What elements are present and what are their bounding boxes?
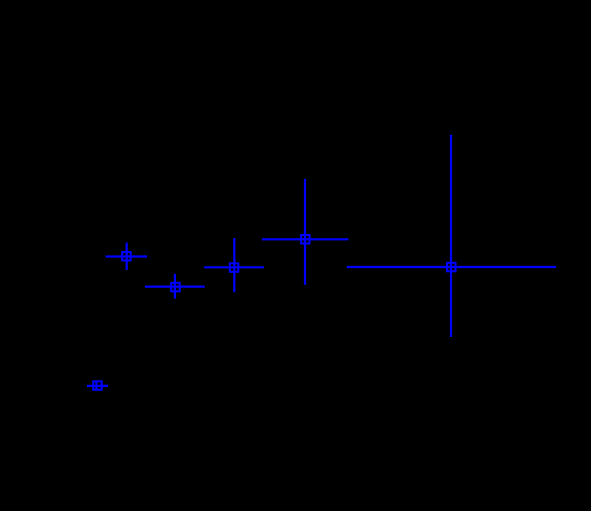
data point P6 x-error bar (87, 385, 108, 387)
data point P1 square marker (122, 252, 131, 261)
data point P3 x-error bar (204, 266, 264, 268)
data point P2 x-error bar (145, 286, 205, 288)
data point P5 x-error bar (347, 266, 556, 268)
data point P2 square marker (171, 283, 180, 292)
data point P1 y-error bar (126, 243, 128, 271)
data point P5 square marker (447, 263, 456, 272)
data point P5 y-error bar (450, 135, 452, 337)
data point P2 y-error bar (174, 274, 176, 299)
data point P3 y-error bar (233, 238, 235, 292)
data point P3 square marker (230, 263, 239, 272)
data point P4 y-error bar (304, 179, 306, 285)
data point P6 y-error bar (95, 381, 97, 390)
data point P1 x-error bar (106, 255, 148, 257)
data point P4 square marker (301, 235, 310, 244)
data point P6 square marker (93, 381, 102, 390)
data point P4 x-error bar (262, 238, 349, 240)
